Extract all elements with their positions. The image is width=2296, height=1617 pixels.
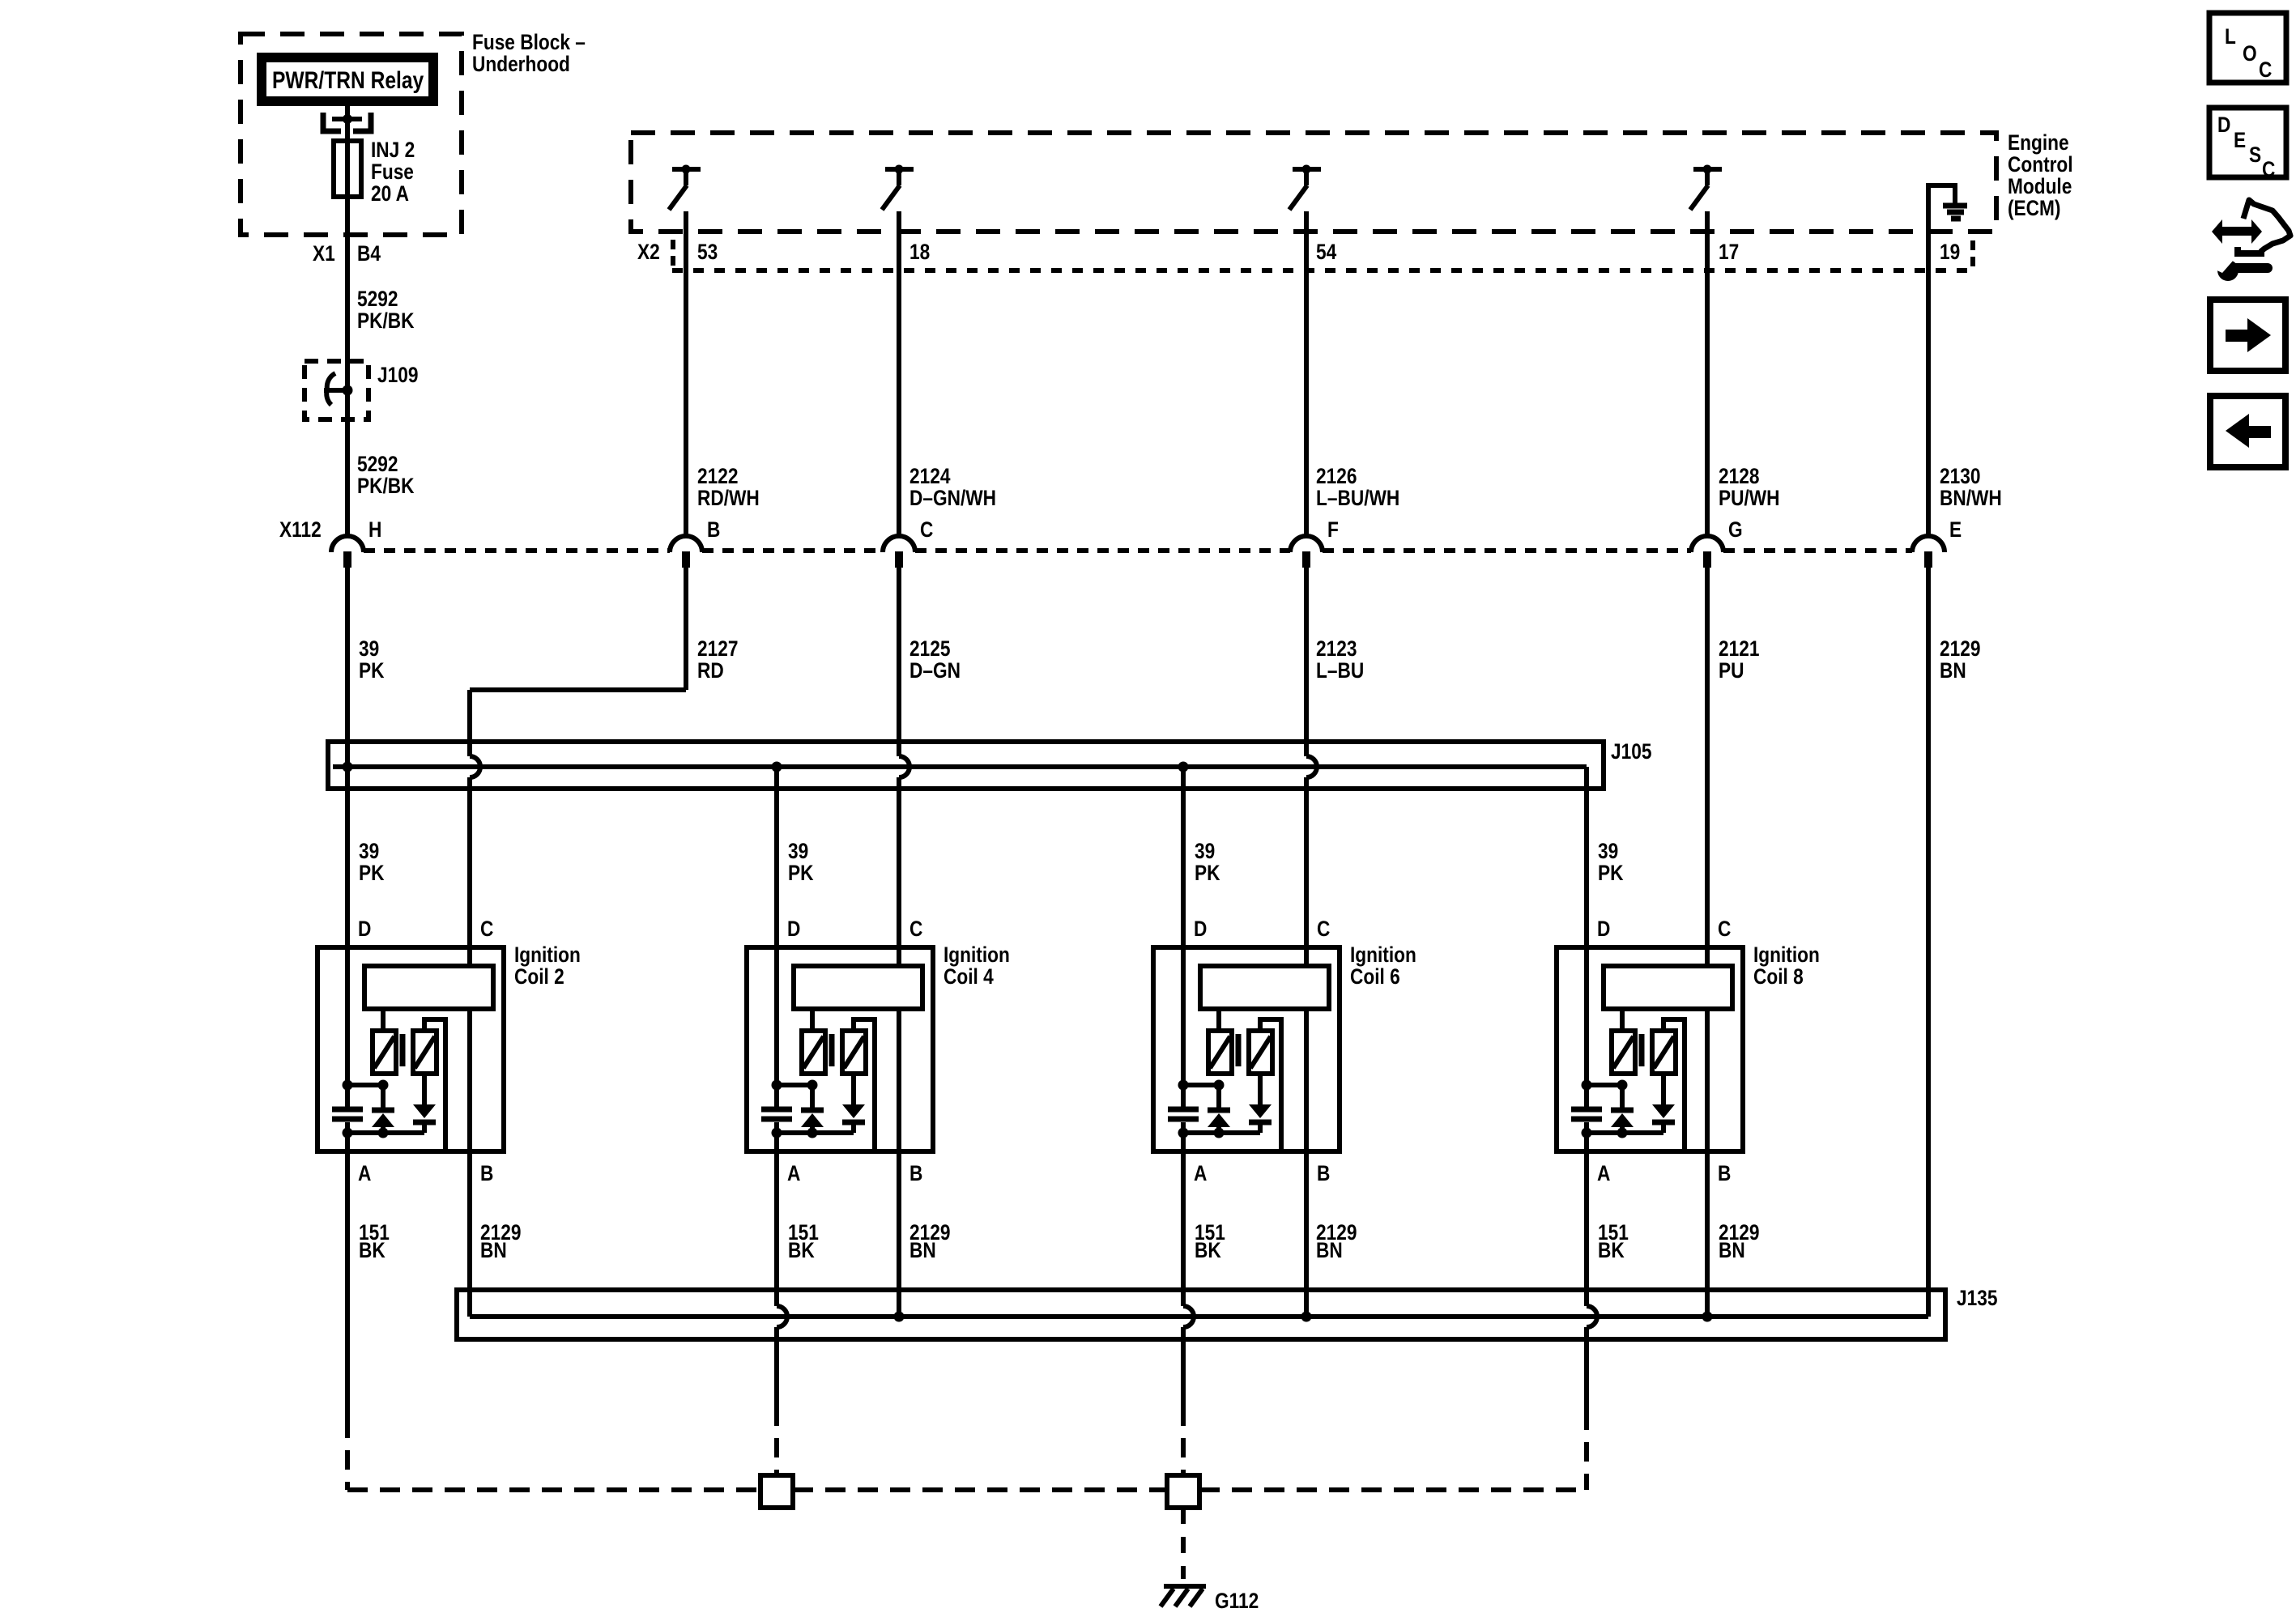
coil 2 secondary output to case [424,1019,445,1149]
svg-text:X112: X112 [279,517,322,542]
svg-text:PK: PK [359,658,384,683]
ignition coil 6 box [1153,947,1340,1151]
svg-text:2127: 2127 [697,636,738,661]
svg-text:PU/WH: PU/WH [1719,486,1780,510]
svg-text:Coil 4: Coil 4 [944,964,994,989]
J135 hop of wire 151 coil 4 [777,1306,787,1327]
X112 terminal E [1912,536,1945,552]
wire 2129 BN coil 2 pin B to J135 [467,1009,472,1317]
J135 splice wire 2129 BN [470,1314,1928,1319]
svg-text:39: 39 [788,839,808,863]
svg-text:2123: 2123 [1316,636,1357,661]
wire 2127 RD from X112 B with jog to coil 2 pin C [684,567,688,690]
inline connector at coil 6 ground [1167,1475,1199,1508]
svg-text:A: A [787,1161,800,1185]
svg-text:A: A [358,1161,371,1185]
ignition coil 2 box [317,947,504,1151]
svg-text:C: C [480,917,493,941]
svg-text:D: D [1597,917,1610,941]
coil 4 primary winding [802,1031,825,1074]
svg-text:X2: X2 [637,240,660,264]
ECM internal ground at pin 19 [1928,185,1955,204]
svg-text:C: C [2259,57,2272,82]
coil 2 internal node line lower [347,1130,424,1135]
ECM driver switch for pin 53 [672,167,701,172]
coil 2 internal node line upper [347,1083,383,1087]
svg-text:J105: J105 [1611,739,1652,764]
coil 4 diode [851,1074,856,1104]
wire 2130 BN/WH from ECM pin 19 to X112 E [1926,183,1931,538]
wire 2129 BN from X112 E to splice J135 [1926,567,1931,1317]
X112 terminal B [670,536,702,552]
ignition coil 8 terminal strip [1604,966,1732,1009]
splice J135 bus outline [457,1290,1945,1339]
ignition coil 6 terminal strip [1200,966,1329,1009]
coil 8 primary feed [1620,1009,1625,1031]
junction dot at relay terminal [343,114,352,124]
wire 39 PK from J105 to coil 8 pin D [1584,767,1589,1107]
coil 8 internal node line lower [1587,1130,1663,1135]
svg-text:D: D [787,917,800,941]
coil 8 primary winding [1612,1031,1635,1074]
svg-text:39: 39 [1598,839,1618,863]
svg-text:H: H [368,517,381,542]
svg-text:B: B [1317,1161,1330,1185]
wire 2129 BN coil 6 pin B to J135 [1304,1009,1309,1317]
coil 8 secondary output to case [1663,1019,1685,1149]
coil 4 internal node line upper [777,1083,812,1087]
svg-text:2122: 2122 [697,464,738,488]
X112 terminal C [883,536,915,552]
svg-text:Ignition: Ignition [1753,943,1820,967]
coil 2 zener diode [381,1085,386,1108]
X112 terminal H [331,536,364,552]
fuse block - underhood (dashed enclosure) [241,34,462,235]
svg-text:PK: PK [359,861,384,885]
icon DESC box [2209,108,2286,177]
svg-text:2128: 2128 [1719,464,1760,488]
relay K PWR/TRN Relay (solid box) [257,53,438,106]
coil 4 zener diode [810,1085,815,1108]
svg-text:X1: X1 [313,241,335,266]
coil 2 secondary winding [413,1031,437,1074]
svg-text:B: B [480,1161,493,1185]
J105 hop of wire 2123 [1306,756,1317,777]
svg-text:BK: BK [788,1238,815,1262]
svg-text:PWR/TRN Relay: PWR/TRN Relay [272,66,424,94]
svg-text:PK: PK [1195,861,1220,885]
wire 2122 RD/WH from ECM switch to X112 [684,211,688,538]
svg-text:PK/BK: PK/BK [357,474,415,498]
icon connector repair (double arrow) [2212,219,2262,244]
svg-text:RD/WH: RD/WH [697,486,760,510]
icon back arrow box [2210,396,2285,467]
coil 4 primary feed [810,1009,815,1031]
wire 39 PK from J105 to coil 6 pin D [1181,767,1186,1107]
ignition coil 2 terminal strip [364,966,493,1009]
wire 2129 BN coil 8 pin B to J135 [1705,1009,1710,1317]
svg-text:PU: PU [1719,658,1744,683]
wire 39 PK from J105 to coil 4 pin D [774,767,779,1107]
icon forward arrow box [2210,300,2285,371]
X112 terminal G [1691,536,1723,552]
coil 6 secondary winding [1249,1031,1272,1074]
icon connector repair (hood outline) [2243,200,2290,252]
hidden wire to ground G112 [1181,1508,1186,1579]
splice connector J109 (dashed box) [305,361,368,419]
inline connector at coil 4 ground [760,1475,793,1508]
coil 4 internal node line lower [777,1130,854,1135]
svg-text:B: B [909,1161,922,1185]
svg-text:Fuse Block –: Fuse Block – [472,30,586,54]
J135 junction coil 8 B [1702,1312,1713,1322]
wire 2123 L-BU from X112 F to coil 6 pin C [1304,567,1309,756]
wire 2124 D-GN/WH from ECM switch to X112 [897,211,901,538]
wire 2129 BN coil 4 pin B to J135 [897,1009,901,1317]
svg-text:B: B [707,517,720,542]
coil 2 core [400,1034,406,1066]
svg-text:2121: 2121 [1719,636,1760,661]
coil 2 diode [422,1074,427,1104]
coil 6 zener diode [1216,1085,1221,1108]
J105 splice wire 39 PK [333,764,1587,769]
icon connector repair (hood foot) [2238,247,2264,253]
hidden wire 151 from coil 8 A [1584,1411,1589,1490]
J135 hop of wire 151 coil 8 [1587,1306,1597,1327]
svg-text:Engine: Engine [2008,130,2069,155]
svg-text:19: 19 [1940,240,1960,264]
svg-text:Ignition: Ignition [1350,943,1416,967]
svg-text:39: 39 [359,636,379,661]
svg-text:BK: BK [1598,1238,1625,1262]
ECM driver switch for pin 18 [885,167,914,172]
pin 19 separator [1970,240,1975,272]
svg-text:Ignition: Ignition [944,943,1010,967]
svg-text:L–BU: L–BU [1316,658,1364,683]
ECM driver switch for pin 17 [1693,167,1722,172]
svg-text:D–GN: D–GN [909,658,961,683]
svg-text:39: 39 [1195,839,1215,863]
ignition coil 8 box [1557,947,1743,1151]
svg-text:Ignition: Ignition [514,943,581,967]
svg-text:2129: 2129 [1940,636,1980,661]
J109 clip symbol [326,373,335,405]
X2 separator [671,240,675,269]
J135 hop of wire 151 coil 6 [1183,1306,1194,1327]
svg-text:G112: G112 [1215,1589,1259,1613]
svg-text:BN/WH: BN/WH [1940,486,2002,510]
svg-text:C: C [2262,157,2275,181]
fuse INJ 2 Fuse 20 A [334,141,361,197]
svg-text:BN: BN [480,1238,507,1262]
coil 8 zener diode [1620,1085,1625,1108]
J105 junction to coil 2 feed [343,762,353,772]
coil 6 diode [1258,1074,1263,1104]
svg-text:L: L [2225,24,2236,49]
wire from fuse to connector X1 pin B4 [345,197,350,538]
coil 6 capacitor [1181,1085,1186,1107]
svg-text:J135: J135 [1957,1286,1998,1310]
svg-text:2130: 2130 [1940,464,1980,488]
coil 2 primary winding [373,1031,396,1074]
relay output terminal bracket [323,113,341,131]
hidden wire 151 from coil 2 A [345,1419,350,1490]
svg-text:RD: RD [697,658,724,683]
svg-text:Module: Module [2008,174,2072,198]
hidden ground bus 151 right segment [1199,1487,1587,1492]
svg-text:53: 53 [697,240,718,264]
svg-text:B: B [1718,1161,1731,1185]
coil 8 internal node line upper [1587,1083,1622,1087]
coil 6 internal node line upper [1183,1083,1219,1087]
svg-text:2126: 2126 [1316,464,1357,488]
svg-text:BK: BK [359,1238,386,1262]
svg-text:Coil 2: Coil 2 [514,964,564,989]
coil 4 core [829,1034,835,1066]
svg-text:17: 17 [1719,240,1739,264]
svg-text:BN: BN [1719,1238,1745,1262]
svg-text:BN: BN [1316,1238,1343,1262]
svg-text:PK/BK: PK/BK [357,309,415,333]
coil 6 secondary output to case [1260,1019,1281,1149]
svg-text:L–BU/WH: L–BU/WH [1316,486,1399,510]
wire 151 BK coil 2 pin A [345,1133,350,1419]
J135 junction coil 6 B [1301,1312,1312,1322]
svg-text:E: E [1949,517,1962,542]
X112 terminal F [1290,536,1323,552]
wire 151 BK coil 4 pin A [774,1133,779,1306]
wire 2121 PU from X112 G to coil 8 pin C [1705,567,1710,968]
svg-text:Coil 6: Coil 6 [1350,964,1400,989]
svg-text:Fuse: Fuse [371,160,414,184]
X112 dashed line [364,548,670,553]
svg-text:PK: PK [1598,861,1623,885]
svg-text:D–GN/WH: D–GN/WH [909,486,996,510]
hidden ground bus 151 middle segment [793,1487,1167,1492]
svg-text:O: O [2243,41,2257,66]
svg-text:B4: B4 [357,241,381,266]
svg-text:C: C [920,517,933,542]
svg-text:5292: 5292 [357,287,398,311]
icon connector repair (wrench) [2217,260,2238,281]
coil 6 primary winding [1208,1031,1232,1074]
svg-text:D: D [358,917,371,941]
svg-text:F: F [1327,517,1339,542]
svg-text:5292: 5292 [357,452,398,476]
ignition coil 4 terminal strip [794,966,922,1009]
coil 8 capacitor [1584,1085,1589,1107]
wire 151 BK coil 8 pin A [1584,1133,1589,1306]
J105 junction to coil 4 feed [772,762,782,772]
coil 6 core [1236,1034,1242,1066]
svg-text:S: S [2249,143,2261,167]
coil 2 primary feed [381,1009,386,1031]
svg-text:BN: BN [1940,658,1966,683]
svg-text:E: E [2234,128,2246,152]
svg-text:18: 18 [909,240,930,264]
svg-text:C: C [909,917,922,941]
svg-text:C: C [1317,917,1330,941]
svg-text:J109: J109 [377,363,418,387]
J105 junction to coil 6 feed [1178,762,1189,772]
wire 39 PK from X112 H down through J105 to coil 2 pin D [345,567,350,1107]
coil 6 internal node line lower [1183,1130,1260,1135]
svg-text:INJ 2: INJ 2 [371,138,415,162]
svg-text:C: C [1718,917,1731,941]
wire 2128 PU/WH from ECM switch to X112 [1705,211,1710,538]
coil 4 secondary output to case [854,1019,875,1149]
svg-text:A: A [1597,1161,1610,1185]
wire 151 BK coil 6 pin A [1181,1133,1186,1306]
svg-text:2124: 2124 [909,464,951,488]
svg-text:G: G [1728,517,1743,542]
hidden wire 151 from coil 6 A [1181,1406,1186,1475]
svg-text:2125: 2125 [909,636,951,661]
J105 hop of wire 2125 [899,756,909,777]
ECM driver switch for pin 54 [1293,167,1321,172]
J135 junction coil 4 B [894,1312,905,1322]
junction dot J109 [343,385,353,396]
coil 4 capacitor [774,1085,779,1107]
svg-text:54: 54 [1316,240,1336,264]
svg-text:D: D [1194,917,1207,941]
splice J105 bus outline [328,742,1604,789]
svg-text:(ECM): (ECM) [2008,196,2060,220]
J105 hop of wire 2127 [470,756,480,777]
coil 8 diode [1661,1074,1666,1104]
svg-text:Underhood: Underhood [472,52,570,76]
svg-text:BN: BN [909,1238,936,1262]
wire 2126 L-BU/WH from ECM switch to X112 [1304,211,1309,538]
svg-text:Control: Control [2008,152,2073,177]
svg-text:Coil 8: Coil 8 [1753,964,1804,989]
engine control module ECM (dashed enclosure) [631,133,1996,232]
svg-text:D: D [2217,113,2230,137]
ECM connector row dotted line [672,268,1976,273]
coil 8 core [1639,1034,1645,1066]
ignition coil 4 box [747,947,933,1151]
hidden wire 151 from coil 4 A [774,1406,779,1475]
coil 6 primary feed [1216,1009,1221,1031]
svg-text:39: 39 [359,839,379,863]
icon LOC box [2209,13,2286,83]
svg-text:20 A: 20 A [371,181,409,206]
wire 5292 from relay output [345,106,350,143]
coil 4 secondary winding [842,1031,866,1074]
hidden ground bus 151 left segment [347,1487,760,1492]
svg-text:PK: PK [788,861,813,885]
coil 2 capacitor [345,1085,350,1107]
coil 8 secondary winding [1652,1031,1676,1074]
wire 2125 D-GN from X112 C to coil 4 pin C [897,567,901,756]
svg-text:BK: BK [1195,1238,1221,1262]
svg-text:A: A [1194,1161,1207,1185]
ground G112 [1164,1584,1206,1589]
